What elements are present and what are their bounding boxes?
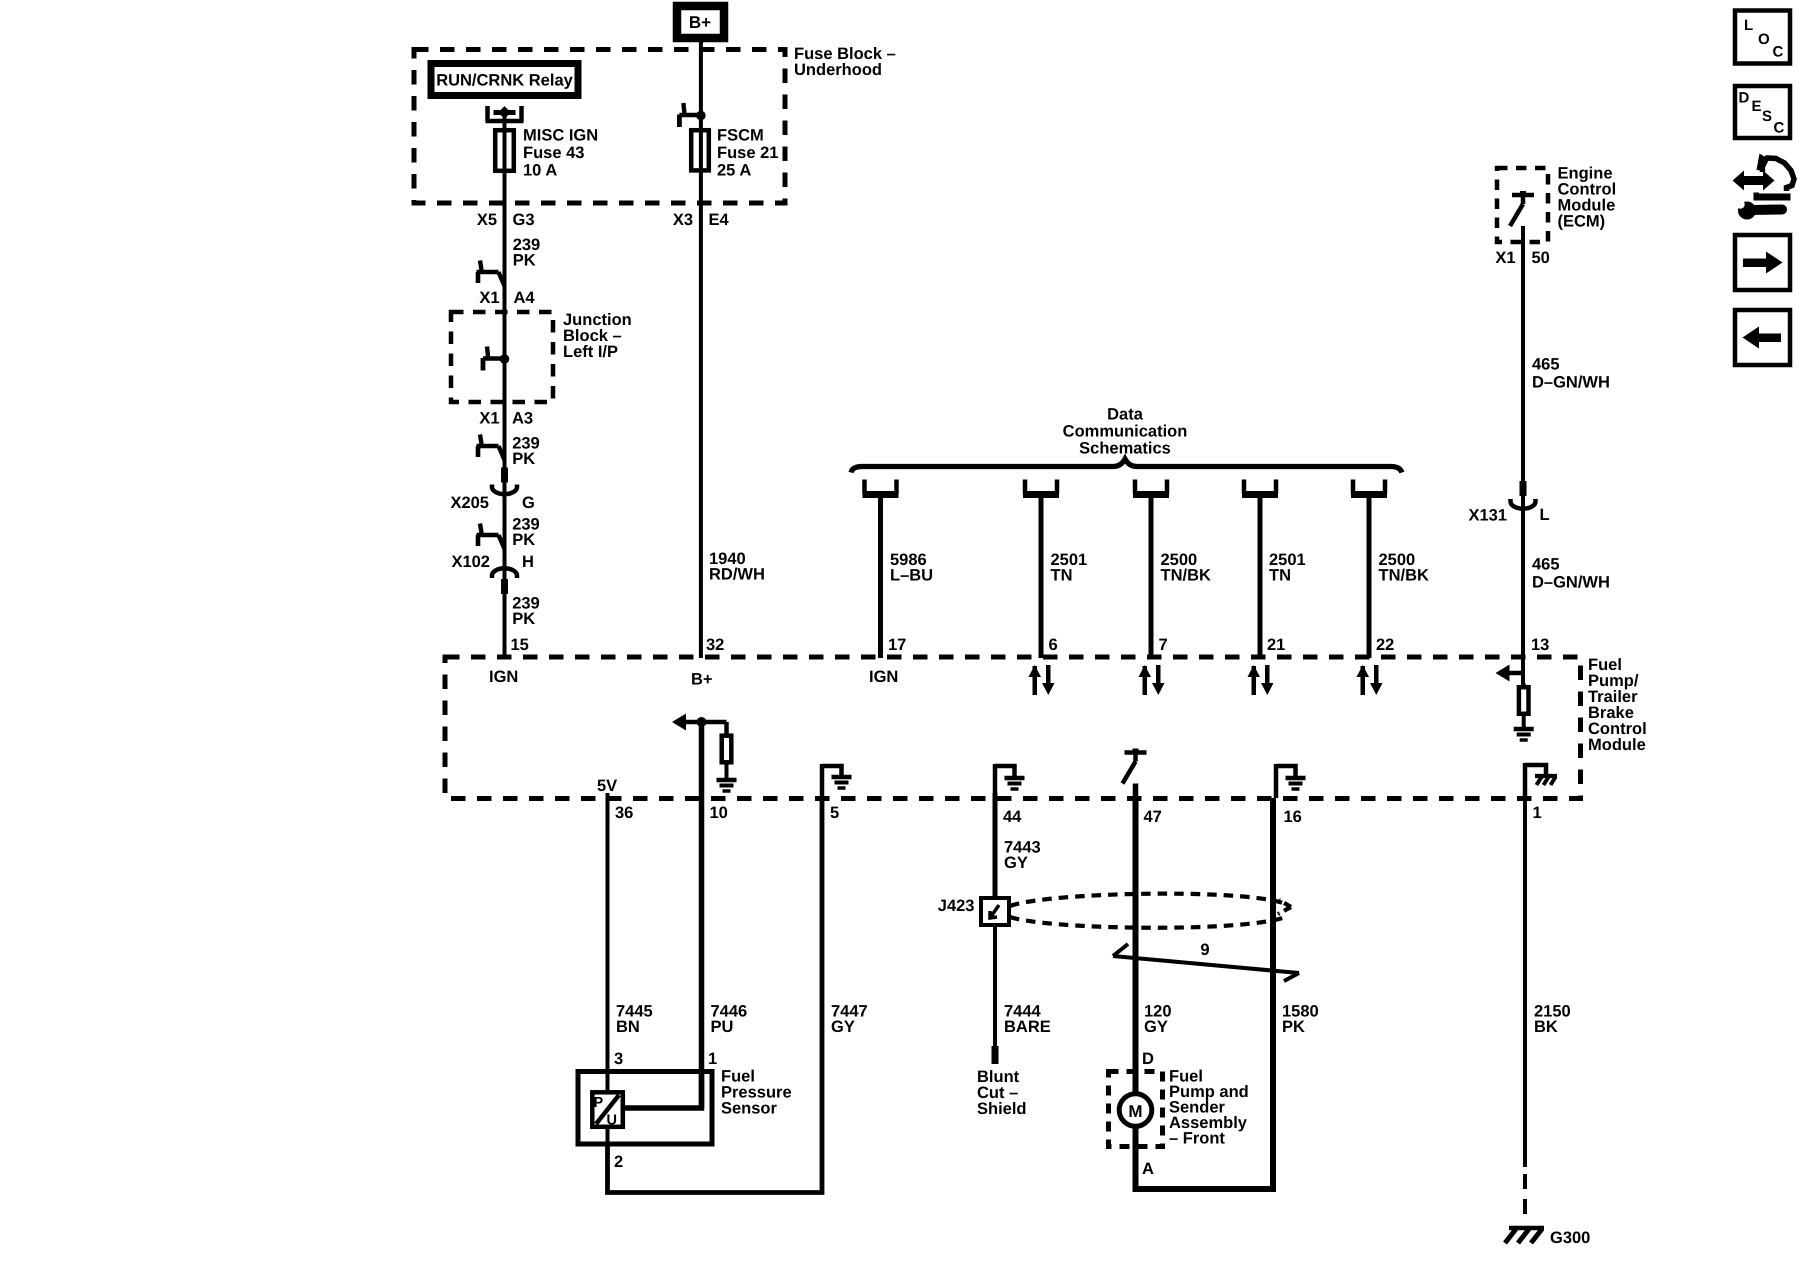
svg-text:PK: PK <box>512 610 535 628</box>
diagnostic icon (arrows and wrench) <box>1733 154 1795 220</box>
svg-text:Left I/P: Left I/P <box>563 343 618 361</box>
in-line connector X131 L <box>1468 481 1549 525</box>
svg-text:RD/WH: RD/WH <box>709 566 765 584</box>
svg-text:Underhood: Underhood <box>794 61 882 79</box>
svg-text:X131: X131 <box>1468 507 1507 525</box>
svg-text:X1: X1 <box>479 289 499 307</box>
svg-text:FSCM: FSCM <box>717 127 764 145</box>
pin 13 internal: arrow, resistor, ground <box>1496 658 1534 740</box>
ground G300 <box>1505 1228 1590 1247</box>
svg-text:L: L <box>1744 17 1753 34</box>
wire relay to MISC fuse <box>503 112 507 130</box>
data wire 4: 2501 TN <box>1242 480 1306 659</box>
wire 7444 BARE J423 to blunt cut <box>992 925 1051 1064</box>
wire 2150 BK pin 1 to G300 <box>1525 798 1571 1224</box>
svg-text:L: L <box>1540 506 1550 524</box>
svg-text:X3: X3 <box>673 211 693 229</box>
fuse MISC IGN 43 <box>495 127 598 180</box>
svg-text:TN/BK: TN/BK <box>1379 567 1429 585</box>
splice J423 <box>938 897 1009 925</box>
brace <box>851 459 1402 473</box>
wire fuse 43 to module pin 15 <box>503 173 507 658</box>
svg-text:RUN/CRNK Relay: RUN/CRNK Relay <box>436 72 573 90</box>
svg-text:Shield: Shield <box>977 1100 1027 1118</box>
svg-text:E: E <box>1752 98 1762 115</box>
fuse block underhood dashed box <box>414 50 785 204</box>
wire 7447 GY pin 5 down and across to sensor pin 2 <box>608 798 868 1193</box>
svg-text:PK: PK <box>1282 1018 1305 1036</box>
switch inside ECM <box>1510 191 1534 226</box>
svg-text:3: 3 <box>614 1050 623 1068</box>
svg-text:PU: PU <box>711 1018 734 1036</box>
svg-text:H: H <box>522 553 534 571</box>
ECM dashed box <box>1497 168 1548 242</box>
previous page icon <box>1735 310 1790 365</box>
svg-text:D: D <box>1739 90 1750 107</box>
svg-text:X205: X205 <box>450 494 489 512</box>
svg-text:A4: A4 <box>514 289 536 307</box>
svg-text:15: 15 <box>511 636 529 654</box>
svg-text:32: 32 <box>706 636 724 654</box>
svg-text:M: M <box>1128 1102 1142 1121</box>
svg-text:B+: B+ <box>691 671 713 689</box>
DESC icon <box>1735 86 1790 138</box>
svg-text:J423: J423 <box>938 897 975 915</box>
svg-text:BARE: BARE <box>1004 1018 1051 1036</box>
next page icon <box>1735 235 1790 290</box>
svg-text:Data: Data <box>1107 406 1144 424</box>
svg-text:1: 1 <box>1533 804 1542 822</box>
arrow pair pin 21 <box>1248 665 1274 695</box>
svg-text:X1: X1 <box>479 410 499 428</box>
wire B+ to FSCM fuse <box>699 42 703 130</box>
svg-text:22: 22 <box>1376 636 1394 654</box>
svg-text:IGN: IGN <box>489 668 518 686</box>
hook connector above X102 <box>477 524 505 550</box>
svg-text:PK: PK <box>513 252 536 270</box>
data wire 2: 2501 TN <box>1023 480 1087 659</box>
svg-text:D–GN/WH: D–GN/WH <box>1532 574 1610 592</box>
wire 7446 PU pin 10 to sensor pin 1 <box>702 798 748 1108</box>
svg-text:10: 10 <box>710 804 728 822</box>
svg-text:9: 9 <box>1200 941 1209 959</box>
svg-text:TN/BK: TN/BK <box>1161 567 1211 585</box>
svg-text:C: C <box>1773 44 1784 61</box>
pin 16 internal ground <box>1276 764 1306 798</box>
wire ECM to module pin 13 <box>1521 226 1525 658</box>
svg-text:X102: X102 <box>451 553 490 571</box>
hook connector below A3 <box>477 435 505 461</box>
relay contact symbol <box>486 106 524 121</box>
svg-text:6: 6 <box>1049 636 1058 654</box>
svg-text:Fuse 43: Fuse 43 <box>523 144 584 162</box>
svg-text:E4: E4 <box>709 211 730 229</box>
in-line connector X102 H <box>451 553 533 594</box>
pin 5 internal ground <box>822 764 852 798</box>
wire 7445 BN pin 36 to sensor pin 3 <box>608 793 653 1070</box>
pin 47 internal switch <box>1123 749 1147 799</box>
fuse FSCM 21 <box>691 127 778 180</box>
svg-text:PK: PK <box>512 450 535 468</box>
svg-text:U: U <box>607 1113 617 1129</box>
shield ellipse <box>1010 894 1291 928</box>
svg-text:G300: G300 <box>1550 1229 1590 1247</box>
svg-text:465: 465 <box>1532 556 1560 574</box>
svg-text:G3: G3 <box>513 211 535 229</box>
svg-text:16: 16 <box>1284 808 1302 826</box>
pin 1 internal chassis ground <box>1525 763 1557 798</box>
svg-text:465: 465 <box>1532 356 1560 374</box>
svg-text:BN: BN <box>616 1018 640 1036</box>
svg-text:21: 21 <box>1267 636 1285 654</box>
P/U transducer symbol <box>592 1092 623 1127</box>
svg-text:47: 47 <box>1144 808 1162 826</box>
svg-text:7: 7 <box>1159 636 1168 654</box>
svg-text:PK: PK <box>512 531 535 549</box>
RUN/CRNK Relay label box <box>431 64 578 96</box>
svg-text:IGN: IGN <box>869 668 898 686</box>
LOC icon <box>1735 11 1790 64</box>
svg-text:L–BU: L–BU <box>890 567 933 585</box>
svg-text:10 A: 10 A <box>523 162 557 180</box>
svg-text:P: P <box>594 1095 604 1111</box>
svg-text:GY: GY <box>1004 854 1028 872</box>
hook connector above X1 A4 <box>477 261 505 287</box>
svg-text:TN: TN <box>1051 567 1073 585</box>
data wire 3: 2500 TN/BK <box>1133 480 1211 659</box>
svg-text:G: G <box>522 494 535 512</box>
svg-text:50: 50 <box>1532 249 1550 267</box>
wire fuse 21 to module pin 32 <box>699 173 703 658</box>
data wire 1: 5986 L-BU <box>863 480 934 659</box>
wire 1580 PK pin 16 to fuel pump A <box>1136 798 1319 1189</box>
svg-text:(ECM): (ECM) <box>1558 213 1606 231</box>
svg-text:13: 13 <box>1531 636 1549 654</box>
pin 44 internal ground <box>995 764 1025 798</box>
svg-text:Fuse 21: Fuse 21 <box>717 144 778 162</box>
svg-text:– Front: – Front <box>1169 1130 1225 1148</box>
svg-text:GY: GY <box>1144 1018 1168 1036</box>
hook connector inside junction block <box>483 347 509 371</box>
svg-text:TN: TN <box>1269 567 1291 585</box>
svg-text:2: 2 <box>614 1153 623 1171</box>
pin 10 internal: arrow, junction, resistor, ground <box>672 714 737 799</box>
svg-text:O: O <box>1758 31 1770 48</box>
svg-text:B+: B+ <box>689 13 711 32</box>
arrow pair pin 7 <box>1139 665 1165 695</box>
B+ power node <box>677 6 724 38</box>
hook on FSCM wire <box>679 103 705 127</box>
svg-text:5V: 5V <box>597 777 617 795</box>
shield arrow 9 <box>1113 941 1299 981</box>
arrow pair pin 6 <box>1029 665 1055 695</box>
svg-text:44: 44 <box>1003 808 1022 826</box>
svg-text:BK: BK <box>1534 1018 1558 1036</box>
svg-text:Sensor: Sensor <box>721 1100 778 1118</box>
svg-text:1: 1 <box>708 1050 717 1068</box>
svg-text:A: A <box>1142 1160 1154 1178</box>
svg-text:GY: GY <box>831 1018 855 1036</box>
svg-text:D: D <box>1142 1050 1154 1068</box>
svg-text:25 A: 25 A <box>717 162 751 180</box>
svg-text:MISC IGN: MISC IGN <box>523 127 598 145</box>
svg-text:S: S <box>1762 108 1772 125</box>
wire 120 GY pin 47 to fuel pump D <box>1136 798 1172 1070</box>
svg-text:X5: X5 <box>477 211 497 229</box>
svg-text:X1: X1 <box>1495 249 1515 267</box>
data wire 5: 2500 TN/BK <box>1351 480 1429 659</box>
svg-text:D–GN/WH: D–GN/WH <box>1532 374 1610 392</box>
svg-text:17: 17 <box>888 636 906 654</box>
wire 7443 GY pin 44 to J423 <box>993 793 998 898</box>
arrow pair pin 22 <box>1357 665 1383 695</box>
svg-text:36: 36 <box>615 804 633 822</box>
junction block dashed box <box>451 312 553 402</box>
in-line connector X205 G <box>450 468 534 513</box>
svg-text:Module: Module <box>1588 736 1646 754</box>
svg-text:C: C <box>1774 120 1785 137</box>
svg-text:5: 5 <box>830 804 839 822</box>
svg-text:A3: A3 <box>512 410 533 428</box>
svg-text:Communication: Communication <box>1063 423 1188 441</box>
